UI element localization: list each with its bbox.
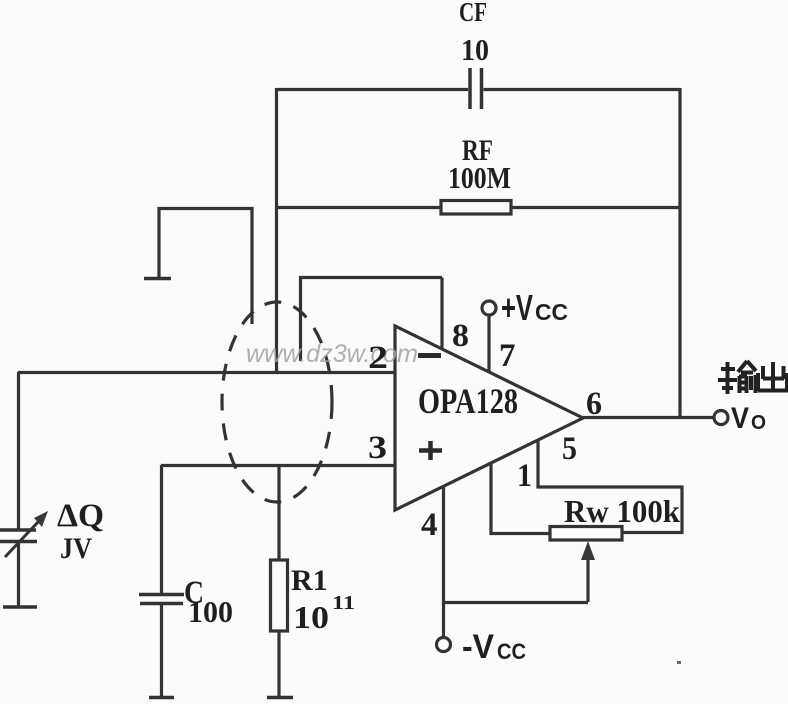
op-amp plus input sign (419, 441, 442, 460)
wire pin 5 lead to pot right end (538, 441, 682, 533)
svg-text:1: 1 (517, 458, 532, 494)
wire left vertical from CF rail to inverting node (275, 88, 278, 372)
ground bar of left guard (144, 277, 171, 281)
wire pin 7 lead (487, 315, 490, 372)
charge source variable arrow (5, 521, 39, 557)
scan speck (677, 661, 681, 664)
svg-text:CC: CC (535, 299, 568, 325)
+Vcc terminal circle (482, 301, 496, 315)
wire RF rail left segment (276, 206, 441, 209)
wire wiper return to -Vcc rail (444, 601, 588, 604)
wire C100 top lead (160, 465, 163, 593)
terminal bar under C100 (149, 696, 174, 700)
wire output line (583, 416, 714, 419)
wire input left vertical (17, 372, 20, 529)
svg-text:-V: -V (462, 628, 494, 666)
svg-text:7: 7 (499, 338, 516, 374)
terminal bar under charge source (3, 605, 37, 609)
svg-text:R1: R1 (291, 564, 328, 597)
capacitor C_F plates (470, 68, 482, 109)
wire RF rail right segment (511, 206, 680, 209)
svg-text:OPA128: OPA128 (418, 381, 518, 421)
-Vcc terminal circle (437, 638, 451, 652)
svg-text:ΔQ: ΔQ (57, 498, 104, 534)
svg-text:100: 100 (188, 594, 233, 629)
output terminal circle Vo (714, 411, 728, 425)
wire C100 bottom lead (160, 604, 163, 697)
wire top feedback rail left of CF (276, 88, 468, 91)
wire pin 8 lead (440, 278, 443, 351)
wire pin 4 lead to -Vcc (442, 487, 445, 638)
op-amp U1 triangle (395, 326, 583, 510)
charge source JV plates (0, 530, 37, 542)
svg-text:JV: JV (60, 532, 92, 565)
wire below charge source (17, 541, 20, 607)
svg-text:11: 11 (332, 592, 355, 614)
guard shield right hook wire to pin 8 (301, 278, 443, 362)
label 输出 (output) hand-drawn glyphs (718, 361, 788, 394)
svg-text:V: V (731, 402, 749, 435)
svg-text:8: 8 (452, 318, 469, 354)
wire pin 1 lead (491, 464, 550, 534)
guard shield left hook wire (159, 209, 252, 325)
resistor R1 body (271, 560, 288, 631)
capacitor C plates (139, 595, 184, 604)
wire right vertical from CF rail to output node (678, 88, 681, 418)
resistor RF body (441, 201, 511, 215)
svg-text:CC: CC (497, 639, 526, 664)
wire R1 top lead (277, 465, 280, 560)
op-amp minus input sign (418, 353, 441, 358)
svg-text:+V: +V (501, 287, 533, 328)
svg-text:4: 4 (421, 507, 438, 543)
svg-text:3: 3 (368, 430, 387, 466)
guard shield dashed ellipse (222, 302, 332, 502)
svg-text:Rw 100k: Rw 100k (564, 493, 680, 529)
wire R1 bottom lead (277, 631, 280, 697)
wire pin 3 line (161, 464, 395, 467)
svg-text:O: O (751, 412, 766, 434)
svg-text:10: 10 (293, 599, 329, 635)
wire top feedback rail right of CF (484, 88, 681, 91)
svg-text:100M: 100M (448, 160, 511, 195)
potentiometer wiper arrow (586, 557, 589, 602)
wire input line to pin 2 (18, 371, 395, 374)
svg-text:CF: CF (459, 0, 487, 27)
svg-text:www.dz3w.com: www.dz3w.com (246, 340, 418, 368)
svg-text:2: 2 (368, 340, 388, 376)
svg-text:6: 6 (586, 386, 602, 422)
svg-text:5: 5 (562, 431, 577, 467)
terminal bar under R1 (267, 696, 293, 700)
potentiometer Rw body (550, 527, 622, 541)
svg-text:10: 10 (461, 32, 489, 67)
